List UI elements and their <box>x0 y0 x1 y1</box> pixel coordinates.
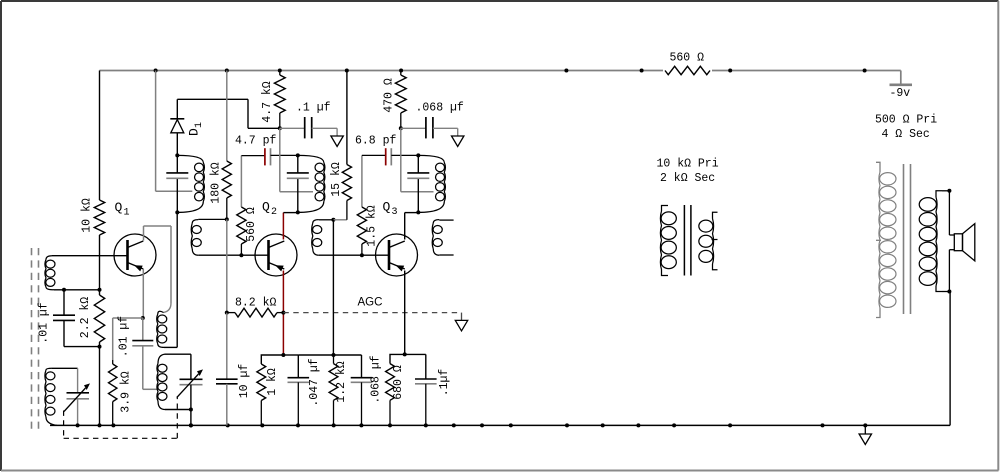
ground symbol AGC <box>455 320 467 331</box>
inductor T6 primary <box>879 172 880 308</box>
svg-text:3: 3 <box>392 207 398 218</box>
node Q3 emitter row <box>403 352 407 356</box>
inductor IF secondary T4 <box>432 223 433 249</box>
wire 6.8pf line left <box>362 154 386 156</box>
svg-text:D: D <box>187 128 202 136</box>
svg-text:1: 1 <box>124 208 130 219</box>
ground symbol .068uf <box>452 136 464 147</box>
inductor T6 secondary <box>936 197 937 286</box>
svg-text:1.5 kΩ: 1.5 kΩ <box>366 205 379 247</box>
svg-text:3.9 kΩ: 3.9 kΩ <box>120 371 133 413</box>
resistor R 8.2 kohm <box>235 308 277 317</box>
node 1.2k top <box>332 353 336 357</box>
wire D1 top lead <box>176 99 178 119</box>
wire 15k link <box>333 219 347 221</box>
wire 6.8pf line right <box>391 154 418 156</box>
inductor L1a antenna coil upper <box>45 260 46 288</box>
wire speaker feeds <box>948 191 950 235</box>
svg-text:4 Ω Sec: 4 Ω Sec <box>882 128 930 141</box>
wire bus to 10k <box>99 71 101 201</box>
wire 1.2k leads <box>333 355 335 364</box>
wire IF secondary top lead T3 <box>319 219 334 221</box>
svg-text:.01 µf: .01 µf <box>118 316 131 358</box>
border frame <box>1 0 999 2</box>
svg-text:2: 2 <box>271 207 277 218</box>
capacitor C .068 uf top <box>425 117 427 138</box>
resistor R 4.7 kohm <box>274 75 285 113</box>
wire 4.7k leads <box>279 71 281 76</box>
wire 10uf to bus <box>226 384 228 426</box>
wire 1.5k bottom <box>361 244 363 255</box>
svg-text:10 kΩ: 10 kΩ <box>81 198 94 233</box>
inductor T5 primary <box>660 211 661 270</box>
variable capacitor C2 osc tuning <box>180 378 203 380</box>
svg-text:2 kΩ Sec: 2 kΩ Sec <box>660 172 715 185</box>
wire 680 bottom <box>389 400 391 425</box>
node ground bus dots <box>76 423 80 427</box>
wire tickler bottom to T2 link <box>164 346 177 348</box>
capacitor C .1 uf bottom <box>415 378 437 380</box>
wire osc tank top <box>165 353 191 355</box>
wire bus to 180k <box>226 71 228 162</box>
speaker <box>954 234 962 251</box>
wire .1uf to ground arrow <box>312 127 337 129</box>
wire 15k bottom <box>346 201 348 220</box>
svg-text:560 Ω: 560 Ω <box>245 207 258 242</box>
svg-text:.068 µf: .068 µf <box>416 102 464 115</box>
inductor oscillator tank coil <box>157 364 158 402</box>
node 2.2k bottom <box>98 345 102 349</box>
wire Q2 collector red <box>282 213 284 240</box>
resistor R 10 kohm <box>94 200 104 235</box>
wire 1.2k row link <box>298 354 333 356</box>
resistor R 470 ohm <box>395 75 406 113</box>
node Q2 emitter 8.2k <box>281 311 285 315</box>
wire T2 feed from bus <box>155 71 157 192</box>
node top bus dots <box>154 69 158 73</box>
svg-text:.01 µf: .01 µf <box>38 302 51 344</box>
resistor R 1.5 kohm <box>357 207 366 244</box>
wire IF secondary top lead T4 <box>439 219 453 221</box>
wire 470 leads <box>400 71 402 76</box>
wire 4.7pf line right <box>271 154 298 156</box>
wire L1a bottom to cap node <box>54 289 100 291</box>
wire node to .1uf <box>280 127 305 129</box>
capacitor C .01 uf (antenna) <box>53 314 75 316</box>
resistor R 560 ohm IF <box>237 207 246 244</box>
wire 10k to base node <box>99 235 101 290</box>
wire T6 sec bottom <box>942 291 949 293</box>
wire bus to 15k <box>346 71 348 165</box>
antenna rod dashed lines <box>31 248 33 432</box>
wire tank cap stubs T4 <box>417 155 419 173</box>
node 470 bottom <box>399 126 403 130</box>
svg-text:1: 1 <box>194 122 205 128</box>
resistor R 1.2 kohm <box>329 364 338 401</box>
-9v terminal bar <box>890 84 913 87</box>
wire .068-2 link <box>334 354 362 356</box>
svg-text:10 kΩ Pri: 10 kΩ Pri <box>657 158 719 171</box>
wire node to .068uf top <box>401 127 426 129</box>
node speaker bottom <box>947 290 951 294</box>
wire emitter row link <box>283 354 298 356</box>
svg-text:Q: Q <box>262 200 270 215</box>
capacitor C 10 uf <box>216 378 238 380</box>
capacitor IF tank T4 <box>407 172 429 174</box>
wire Q3 collector <box>404 213 406 240</box>
wire T4 feed <box>400 128 402 191</box>
wire top supply bus <box>100 70 664 72</box>
capacitor C 6.8 pf <box>385 148 387 165</box>
wire 1k bottom <box>260 401 262 426</box>
wire 4.7pf line left <box>241 155 264 157</box>
node 180k bottom <box>225 217 229 221</box>
svg-text:-9v: -9v <box>890 87 911 100</box>
wire 560 top <box>240 156 242 207</box>
node tank bottom T3 <box>296 210 300 214</box>
wire 2.2k bottom to ground bus <box>99 347 101 426</box>
wire L1a top to Q1 base <box>52 255 128 257</box>
capacitor C .01 uf (osc) <box>132 340 153 342</box>
wire Q2 emitter red <box>282 271 284 356</box>
wire Q3 emitter <box>404 271 406 355</box>
node 15k link <box>331 218 335 222</box>
label D1 <box>187 122 206 136</box>
inductor IF primary T4 <box>444 163 445 202</box>
wire osc coil bottom lead <box>165 409 191 411</box>
T5 core <box>683 205 685 276</box>
wire Q1 emitter lead <box>142 269 144 318</box>
wire D1 to T2 top <box>176 133 178 156</box>
svg-text:.1µf: .1µf <box>438 369 451 397</box>
svg-text:680 Ω: 680 Ω <box>392 365 405 400</box>
svg-text:Q: Q <box>383 200 391 215</box>
wire emitter to .01uf-2 <box>142 318 144 341</box>
svg-text:1 kΩ: 1 kΩ <box>266 368 279 396</box>
resistor R 680 ohm <box>386 364 395 401</box>
transistor Q2 <box>255 234 297 276</box>
wire varcap1 bottom to bus <box>77 399 79 426</box>
node tank top T2 <box>175 153 179 157</box>
wire .068uf to ground arrow <box>433 127 458 129</box>
transistor Q3 <box>376 234 418 276</box>
wire D1 top link <box>177 98 248 100</box>
wire 180k bottom <box>226 198 228 219</box>
wire T6 sec top <box>942 190 949 192</box>
ground symbol bottom <box>864 425 866 434</box>
capacitor C .068 uf bottom <box>351 377 373 379</box>
svg-text:.047 µf: .047 µf <box>308 358 321 406</box>
wire cap .01-1 bottom lead <box>63 320 65 346</box>
resistor R 3.9 kohm <box>109 364 117 402</box>
wire L1b top to varcap <box>52 367 78 369</box>
node Q1 emitter junction <box>141 316 145 320</box>
node osc bottom junction <box>189 408 193 412</box>
wire 8.2k leads <box>227 312 235 314</box>
wire cap .01-1 top lead <box>63 290 65 315</box>
capacitor IF tank T3 <box>287 172 309 174</box>
node 8.2k left <box>225 311 229 315</box>
ground symbol .1uf <box>331 136 343 147</box>
wire varcap2 bottom <box>190 385 192 426</box>
dashed gang link <box>63 411 65 439</box>
svg-text:.1 µf: .1 µf <box>296 102 331 115</box>
node Q3 base 1.5k <box>360 253 364 257</box>
wire 1.5k top <box>361 155 363 207</box>
wire 180k node down to 8.2k node <box>226 219 228 312</box>
svg-text:560 Ω: 560 Ω <box>670 52 705 65</box>
resistor 560 ohm (supply) <box>665 66 710 74</box>
node osc bus <box>189 423 193 427</box>
inductor IF primary T2 <box>203 163 204 202</box>
wire to 10uf <box>226 313 228 380</box>
svg-text:8.2 kΩ: 8.2 kΩ <box>235 297 277 310</box>
wire 560 bottom <box>240 244 242 255</box>
resistor R 2.2 kohm <box>94 295 104 342</box>
node .01uf-1 top <box>62 288 66 292</box>
capacitor IF tank T2 <box>166 172 188 174</box>
inductor oscillator tickler <box>157 314 158 344</box>
resistor R 15 kohm <box>342 165 351 201</box>
svg-text:4.7 kΩ: 4.7 kΩ <box>261 81 274 123</box>
capacitor C 4.7 pf <box>264 148 266 165</box>
wire .01-2 to osc tap <box>142 346 144 390</box>
T6 core <box>903 164 905 314</box>
node 2.2k top <box>98 288 102 292</box>
wire tank cap stubs T3 <box>297 155 299 173</box>
svg-text:4.7 pf: 4.7 pf <box>235 135 277 148</box>
wire Q1 collector lead <box>143 226 145 241</box>
wire T4 sec bottom stub <box>439 254 453 256</box>
T6 primary tap <box>876 239 881 241</box>
wire right riser <box>949 292 951 426</box>
svg-text:15 kΩ: 15 kΩ <box>330 162 343 197</box>
wire bottom ground bus <box>50 424 950 426</box>
svg-text:180 kΩ: 180 kΩ <box>210 162 223 204</box>
svg-text:1.2 kΩ: 1.2 kΩ <box>335 361 348 403</box>
svg-text:6.8 pf: 6.8 pf <box>355 135 397 148</box>
node speaker top <box>947 189 951 193</box>
wire emitter to 3.9k <box>113 317 143 319</box>
diode D1 <box>170 118 184 120</box>
svg-text:470 Ω: 470 Ω <box>383 78 396 113</box>
node Q2 emitter bottom <box>281 353 285 357</box>
wire -9v drop <box>900 71 902 85</box>
wire IF secondary top lead T2 <box>198 218 227 220</box>
node 4.7k bottom <box>278 126 282 130</box>
node tank top T4 <box>416 153 420 157</box>
resistor R 1 kohm <box>257 364 266 401</box>
T5 secondary tap <box>712 239 718 241</box>
wire .047 bottom <box>297 382 299 425</box>
inductor IF secondary T3 <box>312 223 313 249</box>
svg-text:.068 µf: .068 µf <box>370 355 383 403</box>
inductor T5 secondary <box>713 219 714 265</box>
wire Q2 collector to T3 <box>283 212 297 214</box>
wire .068-2 bottom <box>361 382 363 425</box>
transistor Q1 <box>114 234 156 276</box>
node tank top T3 <box>296 153 300 157</box>
capacitor C .047 uf <box>288 377 310 379</box>
svg-text:AGC: AGC <box>358 297 383 309</box>
wire .1uf-2 link <box>405 353 426 355</box>
wire 2.2k leads <box>99 290 101 295</box>
node tank bottom T4 <box>416 210 420 214</box>
node Q2 base 560 <box>239 253 243 257</box>
wire T2 sec bottom to Q2 base <box>198 254 268 256</box>
wire 680 top link <box>390 354 405 363</box>
inductor L1b antenna coil lower <box>45 370 46 417</box>
resistor R 180 kohm <box>222 161 231 198</box>
capacitor C .1 uf <box>304 117 306 138</box>
wire tank cap stubs T2 <box>176 155 178 173</box>
inductor IF primary T3 <box>324 163 325 202</box>
wire .1uf-2 bottom <box>425 384 427 426</box>
inductor IF secondary T2 <box>191 223 192 249</box>
wire T3 sec bottom to Q3 base <box>319 254 389 256</box>
node tank bottom T2 <box>175 210 179 214</box>
wire bias vertical <box>332 220 334 355</box>
variable capacitor C1 tuning <box>67 392 90 394</box>
AGC dashed line <box>283 312 459 314</box>
wire 3.9k leads <box>112 360 114 364</box>
wire T3 feed <box>279 128 281 191</box>
wire 1k top link <box>261 355 283 364</box>
svg-text:500 Ω Pri: 500 Ω Pri <box>875 114 937 127</box>
svg-text:2.2 kΩ: 2.2 kΩ <box>79 297 92 339</box>
svg-text:10 µf: 10 µf <box>238 364 251 399</box>
svg-text:Q: Q <box>115 200 123 215</box>
